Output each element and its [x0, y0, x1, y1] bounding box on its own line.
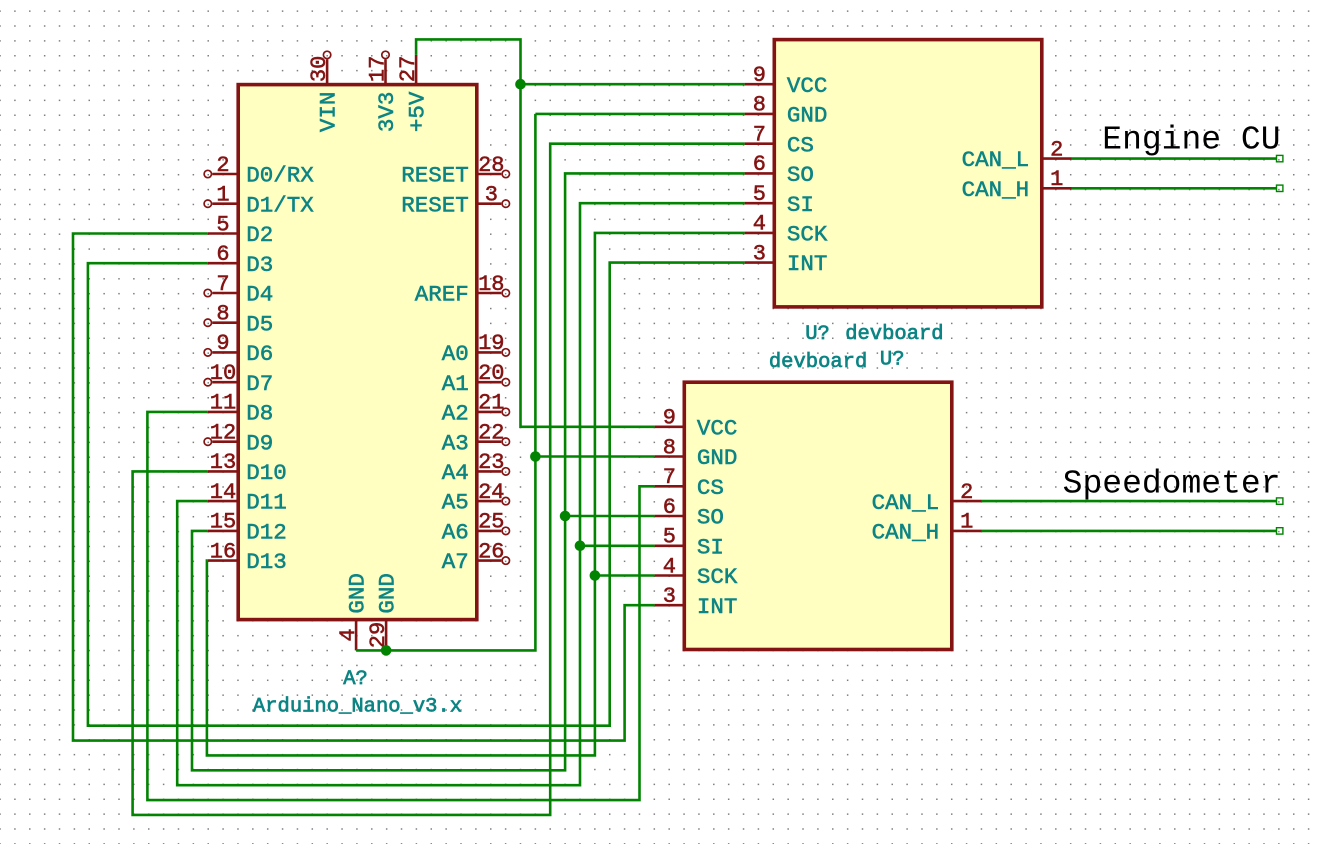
svg-text:20: 20 — [478, 361, 504, 386]
svg-text:5: 5 — [216, 212, 229, 237]
pin 25 A6 — [442, 510, 510, 546]
svg-text:RESET: RESET — [401, 163, 469, 189]
pin 30 VIN — [307, 51, 342, 132]
pin 12 D9 — [204, 421, 273, 457]
svg-text:INT: INT — [697, 594, 738, 620]
pin 9 VCC (Engine CU CAN controller) — [745, 63, 828, 99]
svg-text:D8: D8 — [246, 401, 273, 427]
pin 19 A0 — [442, 331, 510, 367]
svg-text:GND: GND — [375, 573, 401, 614]
pin 22 A3 — [442, 421, 510, 457]
svg-text:8: 8 — [216, 302, 229, 327]
svg-text:CS: CS — [787, 132, 814, 158]
svg-text:A?: A? — [343, 668, 368, 691]
svg-text:A2: A2 — [442, 401, 469, 427]
component A? Arduino_Nano_v3.x — [204, 51, 509, 718]
pin 27 +5V — [396, 55, 431, 132]
wire CS2 net: Speedometer CS to Arduino D8 — [147, 412, 654, 800]
svg-text:VIN: VIN — [316, 92, 342, 133]
pin 2 CAN_L (Engine CU CAN controller) — [962, 137, 1072, 173]
svg-text:A7: A7 — [442, 549, 469, 575]
component U? devboard (Engine CU CAN controller) — [745, 40, 1072, 307]
svg-text:D13: D13 — [246, 549, 287, 575]
pin 5 SI (Engine CU CAN controller) — [745, 182, 814, 218]
svg-text:D7: D7 — [246, 371, 273, 397]
svg-text:SI: SI — [697, 534, 724, 560]
pin 4 GND — [336, 573, 371, 650]
pin 3 INT (Engine CU CAN controller) — [745, 241, 828, 277]
svg-text:D10: D10 — [246, 460, 287, 486]
pin 17 3V3 — [366, 51, 401, 132]
svg-text:A4: A4 — [442, 460, 469, 486]
svg-text:devboard: devboard — [769, 351, 867, 374]
svg-text:6: 6 — [663, 495, 676, 520]
pin 10 D7 — [204, 361, 273, 397]
svg-text:A0: A0 — [442, 341, 469, 367]
svg-text:D12: D12 — [246, 520, 287, 546]
pin 2 CAN_L (Speedometer CAN controller) — [872, 480, 982, 516]
svg-text:RESET: RESET — [401, 192, 469, 218]
wire GND net vertical — [356, 114, 535, 651]
svg-text:CAN_L: CAN_L — [872, 490, 940, 516]
junction +5V at VCC branch — [515, 79, 526, 90]
svg-text:4: 4 — [663, 554, 676, 579]
svg-text:CS: CS — [697, 475, 724, 501]
reference+value text: U? devboard (upper) — [805, 323, 943, 346]
svg-text:A3: A3 — [442, 430, 469, 456]
svg-text:3: 3 — [663, 584, 676, 609]
svg-text:AREF: AREF — [415, 282, 469, 308]
pin 20 A1 — [442, 361, 510, 397]
svg-text:5: 5 — [663, 525, 676, 550]
svg-text:devboard: devboard — [845, 323, 943, 346]
svg-text:CAN_L: CAN_L — [962, 147, 1030, 173]
svg-text:22: 22 — [478, 421, 504, 446]
pin 26 A7 — [442, 539, 510, 575]
pin 4 SCK (Engine CU CAN controller) — [745, 212, 828, 248]
pin 6 SO (Engine CU CAN controller) — [745, 152, 814, 188]
svg-text:SO: SO — [787, 162, 814, 188]
svg-text:D9: D9 — [246, 430, 273, 456]
svg-text:U?: U? — [805, 323, 830, 346]
svg-text:16: 16 — [210, 539, 236, 564]
junction GND at Speedometer branch — [530, 451, 541, 462]
wire GND branch to Speedometer GND — [535, 455, 654, 458]
svg-text:21: 21 — [478, 391, 504, 416]
pin 2 D0/RX — [204, 153, 314, 189]
pin 15 D12 — [208, 510, 287, 546]
svg-text:D11: D11 — [246, 490, 287, 516]
svg-text:2: 2 — [216, 153, 229, 178]
pin 18 AREF — [415, 272, 510, 308]
svg-text:D4: D4 — [246, 282, 273, 308]
component U? devboard (Speedometer CAN controller) — [655, 382, 982, 649]
svg-text:A6: A6 — [442, 520, 469, 546]
pin 4 SCK (Speedometer CAN controller) — [655, 554, 738, 590]
pin 3 RESET — [401, 183, 509, 219]
svg-text:D2: D2 — [246, 222, 273, 248]
pin 8 D5 — [204, 302, 273, 338]
svg-text:4: 4 — [336, 628, 361, 641]
wire SCK branch to Speedometer SCK — [595, 574, 655, 577]
svg-text:14: 14 — [210, 480, 236, 505]
pin 29 GND — [366, 573, 401, 650]
pin 9 D6 — [204, 331, 273, 367]
svg-text:Arduino_Nano_v3.x: Arduino_Nano_v3.x — [253, 696, 462, 719]
svg-text:2: 2 — [1050, 137, 1063, 162]
svg-text:15: 15 — [210, 510, 236, 535]
svg-text:A5: A5 — [442, 490, 469, 516]
svg-text:7: 7 — [753, 123, 766, 148]
Arduino body — [238, 85, 477, 620]
svg-text:6: 6 — [753, 152, 766, 177]
pin 6 D3 — [208, 242, 273, 278]
svg-text:7: 7 — [663, 465, 676, 490]
pin 9 VCC (Speedometer CAN controller) — [655, 406, 738, 442]
pin 1 CAN_H (Speedometer CAN controller) — [872, 510, 982, 546]
svg-text:10: 10 — [210, 361, 236, 386]
devboard body (Speedometer CAN controller) — [684, 382, 952, 649]
pin 24 A5 — [442, 480, 510, 516]
svg-text:4: 4 — [753, 212, 766, 237]
svg-text:6: 6 — [216, 242, 229, 267]
svg-text:9: 9 — [753, 63, 766, 88]
wire CS1 net: Engine CU CS to Arduino D10 — [133, 144, 745, 815]
pin 14 D11 — [208, 480, 287, 516]
svg-text:1: 1 — [1050, 167, 1063, 192]
wire CAN_L Speedometer — [982, 500, 1277, 503]
svg-text:SO: SO — [697, 505, 724, 531]
wire CAN_H Engine CU — [1072, 187, 1277, 190]
svg-text:Speedometer: Speedometer — [1063, 465, 1281, 502]
wire SO branch to Speedometer SO — [565, 515, 655, 518]
svg-text:27: 27 — [396, 56, 421, 82]
wire SI branch to Speedometer SI — [580, 544, 655, 547]
svg-text:GND: GND — [787, 103, 828, 129]
pin 7 CS (Engine CU CAN controller) — [745, 123, 814, 159]
pin 28 RESET — [401, 153, 509, 189]
svg-text:28: 28 — [478, 153, 504, 178]
pin 13 D10 — [208, 450, 287, 486]
svg-text:12: 12 — [210, 421, 236, 446]
svg-text:9: 9 — [216, 331, 229, 356]
pin 11 D8 — [208, 391, 273, 427]
pin 3 INT (Speedometer CAN controller) — [655, 584, 738, 620]
svg-text:D3: D3 — [246, 252, 273, 278]
wire SO net: Engine CU SO to Arduino D12 — [192, 173, 745, 770]
pin 1 CAN_H (Engine CU CAN controller) — [962, 167, 1072, 203]
svg-text:5: 5 — [753, 182, 766, 207]
svg-text:D6: D6 — [246, 341, 273, 367]
svg-text:SCK: SCK — [787, 222, 828, 248]
pin 7 D4 — [204, 272, 273, 308]
svg-text:30: 30 — [307, 56, 332, 82]
junction SI — [575, 541, 586, 552]
svg-text:11: 11 — [210, 391, 236, 416]
pin 5 SI (Speedometer CAN controller) — [655, 525, 724, 561]
wire +5V net: pin27 up, across and down to both VCC pins — [416, 39, 654, 426]
svg-text:13: 13 — [210, 450, 236, 475]
svg-text:25: 25 — [478, 510, 504, 535]
svg-text:SCK: SCK — [697, 564, 738, 590]
svg-text:24: 24 — [478, 480, 504, 505]
svg-text:VCC: VCC — [787, 73, 828, 99]
junction GND at Arduino pin 29 — [381, 645, 392, 656]
svg-text:2: 2 — [960, 480, 973, 505]
svg-text:A1: A1 — [442, 371, 469, 397]
svg-text:CAN_H: CAN_H — [962, 177, 1030, 203]
pin 7 CS (Speedometer CAN controller) — [655, 465, 724, 501]
pin 21 A2 — [442, 391, 510, 427]
svg-text:+5V: +5V — [405, 91, 431, 132]
wire SI net: Engine CU SI to Arduino D11 — [177, 203, 744, 785]
svg-text:VCC: VCC — [697, 415, 738, 441]
pin 1 D1/TX — [204, 183, 314, 219]
svg-text:SI: SI — [787, 192, 814, 218]
svg-text:23: 23 — [478, 450, 504, 475]
svg-text:CAN_H: CAN_H — [872, 520, 940, 546]
svg-text:7: 7 — [216, 272, 229, 297]
svg-text:1: 1 — [960, 510, 973, 535]
svg-text:D5: D5 — [246, 311, 273, 337]
svg-text:8: 8 — [663, 435, 676, 460]
wire +5V branch to Engine CU VCC — [521, 83, 745, 86]
svg-text:U?: U? — [880, 349, 905, 372]
svg-text:D0/RX: D0/RX — [246, 163, 314, 189]
junction SO — [560, 511, 571, 522]
svg-text:D1/TX: D1/TX — [246, 192, 314, 218]
svg-text:19: 19 — [478, 331, 504, 356]
svg-text:INT: INT — [787, 251, 828, 277]
pin 8 GND (Engine CU CAN controller) — [745, 93, 828, 129]
svg-text:9: 9 — [663, 406, 676, 431]
svg-text:Engine CU: Engine CU — [1102, 121, 1280, 158]
svg-text:3: 3 — [485, 183, 498, 208]
pin 8 GND (Speedometer CAN controller) — [655, 435, 738, 471]
svg-text:26: 26 — [478, 539, 504, 564]
svg-text:GND: GND — [345, 573, 371, 614]
svg-text:8: 8 — [753, 93, 766, 118]
svg-text:1: 1 — [216, 183, 229, 208]
wire INT2 net: Speedometer INT to Arduino D2 — [73, 234, 655, 741]
pin 6 SO (Speedometer CAN controller) — [655, 495, 724, 531]
svg-text:3: 3 — [753, 241, 766, 266]
junction SCK — [590, 570, 601, 581]
pin 16 D13 — [208, 539, 287, 575]
pin 5 D2 — [208, 212, 273, 248]
wire GND to Engine CU GND — [535, 113, 744, 116]
svg-text:17: 17 — [366, 56, 391, 82]
reference+value text: devboard U? (lower) — [769, 349, 905, 375]
svg-text:3V3: 3V3 — [374, 92, 400, 133]
devboard body (Engine CU CAN controller) — [774, 40, 1042, 307]
wire CAN_L Engine CU — [1072, 157, 1277, 160]
svg-text:GND: GND — [697, 445, 738, 471]
wire SCK net: Engine CU SCK to Arduino D13 — [207, 233, 745, 756]
svg-text:29: 29 — [366, 622, 391, 648]
wire CAN_H Speedometer — [982, 530, 1277, 533]
wire INT1 net: Engine CU INT to Arduino D3 — [88, 263, 745, 726]
svg-text:18: 18 — [478, 272, 504, 297]
pin 23 A4 — [442, 450, 510, 486]
